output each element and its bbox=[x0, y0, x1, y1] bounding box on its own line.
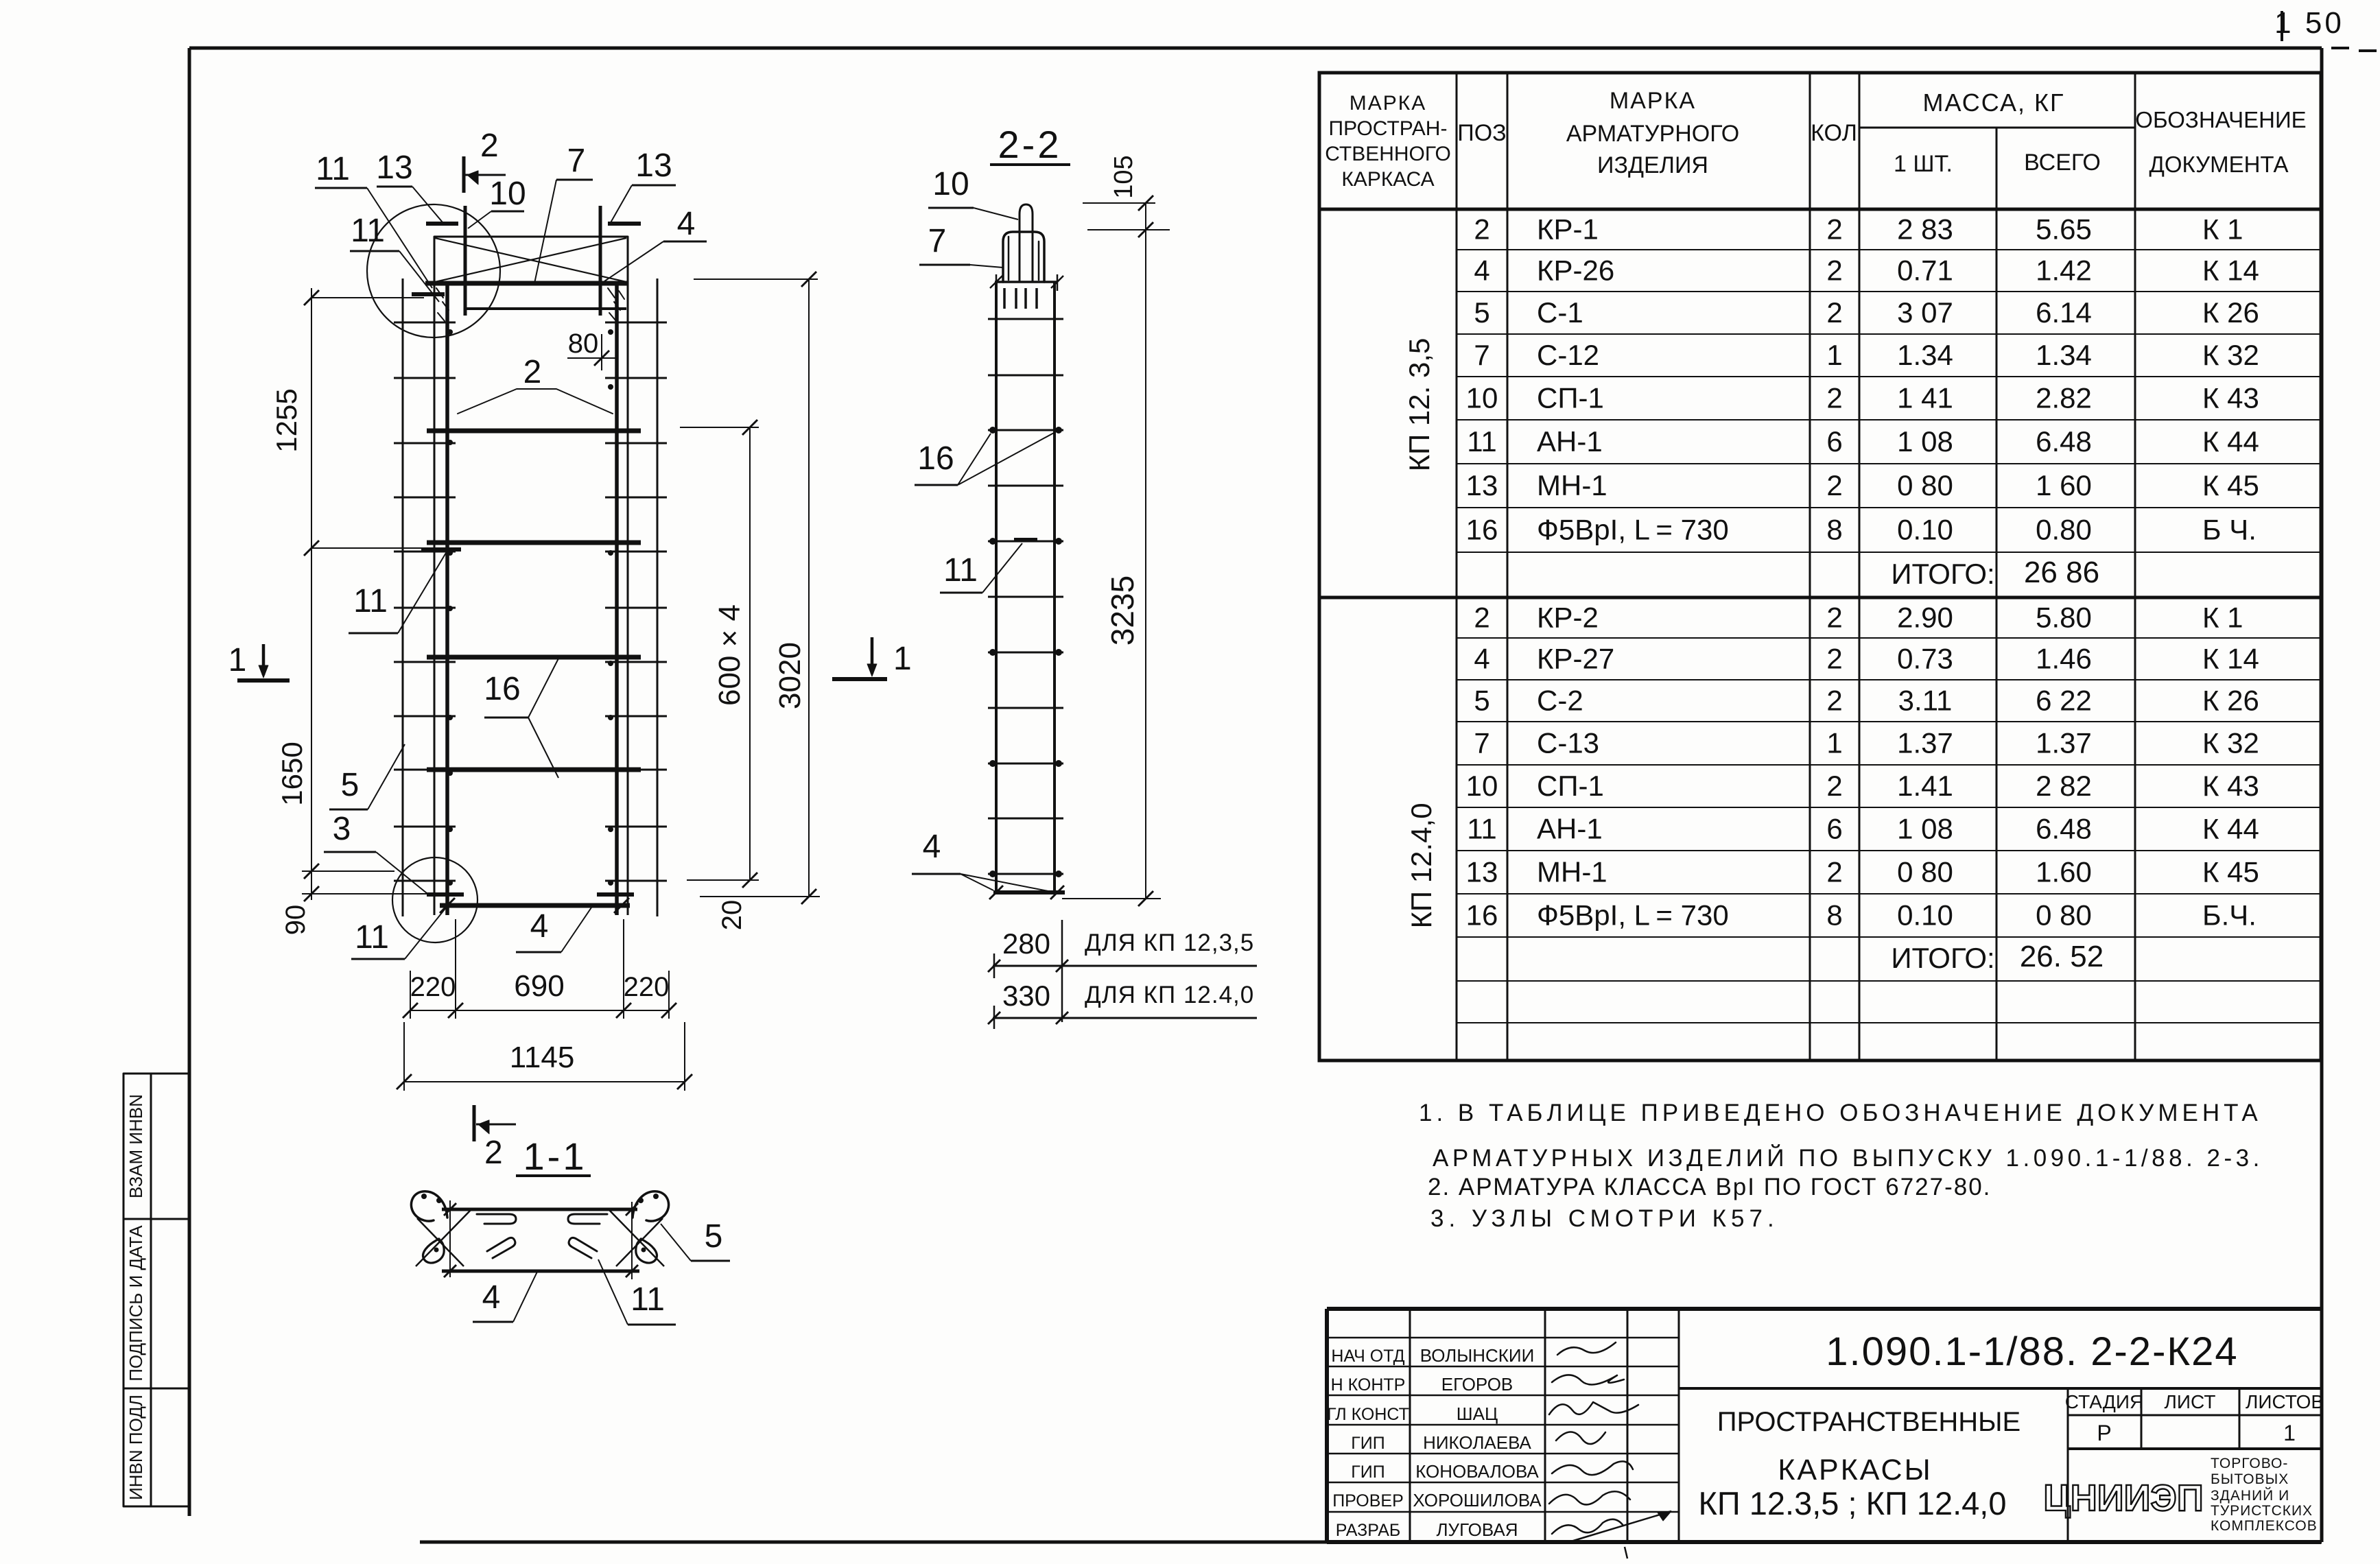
svg-text:5: 5 bbox=[1474, 685, 1489, 717]
bottom chord bar (pos 4) bbox=[440, 903, 630, 908]
dimension line 600x4 bbox=[749, 427, 751, 880]
svg-text:1: 1 bbox=[2283, 1421, 2296, 1445]
svg-text:ПРОСТРАНСТВЕННЫЕ: ПРОСТРАНСТВЕННЫЕ bbox=[1717, 1407, 2020, 1437]
svg-text:ГЛ КОНСТ: ГЛ КОНСТ bbox=[1327, 1405, 1409, 1424]
1-1 inner hook upper-left (pos 11) bbox=[477, 1214, 516, 1224]
svg-text:НАЧ ОТД: НАЧ ОТД bbox=[1331, 1347, 1404, 1366]
svg-text:ИЗДЕЛИЯ: ИЗДЕЛИЯ bbox=[1597, 152, 1708, 178]
mesh wire left at y1044 bbox=[394, 715, 456, 718]
svg-text:КР-2: КР-2 bbox=[1537, 602, 1599, 634]
svg-text:20: 20 bbox=[717, 900, 747, 931]
weld dots 2-2 (pos 16) bbox=[989, 427, 996, 434]
svg-text:К 26: К 26 bbox=[2202, 296, 2259, 329]
svg-text:ВОЛЫНСКИИ: ВОЛЫНСКИИ bbox=[1420, 1345, 1535, 1366]
svg-text:10: 10 bbox=[932, 166, 969, 202]
svg-text:1.34: 1.34 bbox=[2036, 339, 2092, 371]
svg-text:ПРОСТРАН-: ПРОСТРАН- bbox=[1329, 117, 1448, 140]
svg-text:2 82: 2 82 bbox=[2036, 770, 2092, 802]
svg-text:2: 2 bbox=[1826, 685, 1842, 717]
svg-text:16: 16 bbox=[484, 671, 520, 707]
svg-text:ПРОВЕР: ПРОВЕР bbox=[1332, 1491, 1404, 1510]
svg-text:13: 13 bbox=[1466, 856, 1498, 888]
svg-text:13: 13 bbox=[1466, 469, 1498, 501]
svg-text:90: 90 bbox=[281, 905, 311, 936]
svg-text:2: 2 bbox=[1826, 770, 1842, 802]
svg-text:2. АРМАТУРА КЛАССА ВрI ПО: 2. АРМАТУРА КЛАССА ВрI ПО ГОСТ 6727-80. bbox=[1428, 1174, 1991, 1200]
mesh wire left at y551 bbox=[394, 377, 456, 379]
svg-text:6.14: 6.14 bbox=[2036, 296, 2092, 329]
title block stray arrow bbox=[1571, 1511, 1671, 1541]
svg-text:К 14: К 14 bbox=[2202, 643, 2259, 675]
svg-text:Б.Ч.: Б.Ч. bbox=[2202, 899, 2257, 932]
mesh wire left at y646 bbox=[394, 442, 456, 445]
svg-text:11: 11 bbox=[631, 1281, 665, 1318]
svg-text:СП-1: СП-1 bbox=[1537, 382, 1604, 414]
svg-text:8: 8 bbox=[1826, 899, 1842, 932]
svg-text:4: 4 bbox=[923, 829, 941, 865]
svg-text:ГИП: ГИП bbox=[1351, 1462, 1385, 1482]
title block doc number divider bbox=[1679, 1387, 2321, 1390]
main view left chord bar inner bbox=[445, 283, 449, 915]
title block signatures scribbles bbox=[1557, 1342, 1616, 1355]
svg-text:КП 12.4,0: КП 12.4,0 bbox=[1405, 803, 1437, 928]
svg-text:АН-1: АН-1 bbox=[1537, 813, 1603, 845]
svg-text:1-1: 1-1 bbox=[523, 1135, 587, 1178]
weld hatch under head bbox=[1003, 288, 1006, 309]
welded cross bar at y628 bbox=[427, 429, 641, 434]
svg-text:К 1: К 1 bbox=[2202, 213, 2243, 246]
svg-text:2.90: 2.90 bbox=[1897, 602, 1953, 634]
svg-text:3 07: 3 07 bbox=[1897, 296, 1953, 329]
main view left mesh rail bbox=[402, 279, 404, 916]
main view right chord bar inner bbox=[615, 283, 619, 915]
svg-text:1 60: 1 60 bbox=[2036, 469, 2092, 501]
svg-text:0 80: 0 80 bbox=[2036, 899, 2092, 932]
svg-text:2: 2 bbox=[484, 1135, 503, 1171]
mesh wire left at y1284 bbox=[394, 880, 456, 882]
tick AN-1 bottom-left (pos 11) bbox=[427, 892, 464, 897]
svg-text:КОНОВАЛОВА: КОНОВАЛОВА bbox=[1415, 1461, 1539, 1482]
svg-text:СТАДИЯ: СТАДИЯ bbox=[2065, 1391, 2143, 1412]
svg-text:4: 4 bbox=[530, 908, 549, 945]
svg-text:26. 52: 26. 52 bbox=[2020, 940, 2104, 973]
svg-text:13: 13 bbox=[635, 147, 672, 184]
svg-text:С-12: С-12 bbox=[1537, 339, 1599, 371]
weld hatch top-right joint bbox=[608, 288, 624, 321]
column left bar 2-2 bbox=[995, 282, 998, 892]
svg-text:ВЗАМ ИНВN: ВЗАМ ИНВN bbox=[126, 1094, 146, 1198]
svg-text:СТВЕННОГО: СТВЕННОГО bbox=[1325, 143, 1451, 165]
svg-text:КАРКАСА: КАРКАСА bbox=[1341, 168, 1434, 191]
svg-text:3.11: 3.11 bbox=[1898, 685, 1953, 717]
mesh wire left at y1205 bbox=[394, 826, 456, 828]
mesh wire right at y804 bbox=[605, 551, 667, 553]
svg-text:10: 10 bbox=[1466, 770, 1498, 802]
top panel rectangle KR bbox=[434, 236, 628, 238]
svg-text:ДЛЯ КП 12.4,0: ДЛЯ КП 12.4,0 bbox=[1085, 982, 1254, 1008]
svg-text:6.48: 6.48 bbox=[2036, 425, 2092, 458]
svg-text:ИТОГО:: ИТОГО: bbox=[1891, 942, 1994, 974]
svg-text:АРМАТУРНОГО: АРМАТУРНОГО bbox=[1566, 121, 1739, 147]
mesh wire right at y1122 bbox=[605, 769, 667, 771]
svg-text:МАРКА: МАРКА bbox=[1350, 92, 1427, 115]
1-1 inner hook lower-left bbox=[487, 1237, 515, 1258]
svg-text:ЛИСТОВ: ЛИСТОВ bbox=[2246, 1391, 2324, 1412]
main view right mesh rail bbox=[657, 279, 659, 916]
svg-text:0.73: 0.73 bbox=[1897, 643, 1953, 675]
svg-text:К 32: К 32 bbox=[2202, 339, 2259, 371]
svg-text:ДОКУМЕНТА: ДОКУМЕНТА bbox=[2149, 152, 2289, 177]
stamp box PODPIS I DATA bbox=[123, 1219, 189, 1388]
svg-text:ХОРОШИЛОВА: ХОРОШИЛОВА bbox=[1413, 1490, 1542, 1510]
tick MN-1 right (pos 13) bbox=[608, 222, 641, 226]
svg-text:1 41: 1 41 bbox=[1897, 382, 1953, 414]
1-1 bottom bar (pos 4) bbox=[442, 1270, 639, 1273]
variant table line 280 bbox=[993, 965, 1257, 967]
parts table massa header divider bbox=[1859, 127, 2135, 129]
svg-text:8: 8 bbox=[1826, 514, 1842, 546]
tick AN-1 mid-left (pos 11) bbox=[421, 547, 461, 552]
svg-text:3235: 3235 bbox=[1105, 576, 1140, 645]
svg-text:2: 2 bbox=[1826, 469, 1842, 501]
welded cross bar at y958 bbox=[427, 655, 641, 660]
svg-text:0.80: 0.80 bbox=[2036, 514, 2092, 546]
mesh wire left at y886 bbox=[394, 607, 456, 609]
svg-text:26 86: 26 86 bbox=[2024, 556, 2099, 589]
svg-text:2: 2 bbox=[1826, 296, 1842, 329]
node detail circle bottom-left bbox=[392, 857, 478, 943]
svg-text:1.46: 1.46 bbox=[2036, 643, 2092, 675]
svg-text:0.10: 0.10 bbox=[1897, 899, 1953, 932]
svg-text:2: 2 bbox=[1474, 602, 1489, 634]
svg-text:11: 11 bbox=[351, 213, 385, 249]
1-1 left end hook (pos 5) bbox=[411, 1192, 447, 1221]
column right bar 2-2 bbox=[1053, 282, 1056, 892]
mesh wire right at y551 bbox=[605, 377, 667, 379]
svg-text:4: 4 bbox=[1474, 254, 1489, 287]
svg-text:2-2: 2-2 bbox=[998, 123, 1062, 166]
svg-text:К 45: К 45 bbox=[2202, 856, 2259, 888]
svg-text:К 14: К 14 bbox=[2202, 254, 2259, 287]
svg-text:1 ШТ.: 1 ШТ. bbox=[1894, 151, 1953, 177]
dimension line 220-690-220 bbox=[410, 1010, 669, 1011]
svg-text:2.82: 2.82 bbox=[2036, 382, 2092, 414]
svg-text:ПОЗ: ПОЗ bbox=[1457, 120, 1506, 146]
svg-text:БЫТОВЫХ: БЫТОВЫХ bbox=[2211, 1471, 2289, 1487]
second horizontal bar of head bbox=[465, 307, 626, 310]
tick AN-1 top-left (pos 11) bbox=[412, 292, 445, 296]
stamp box INV N PODL bbox=[123, 1388, 189, 1506]
svg-text:С-2: С-2 bbox=[1537, 685, 1583, 717]
svg-text:2: 2 bbox=[1826, 254, 1842, 287]
1-1 tick line left bbox=[449, 1200, 451, 1277]
svg-text:10: 10 bbox=[489, 176, 526, 212]
svg-text:1.41: 1.41 bbox=[1897, 770, 1953, 802]
svg-text:ЛУГОВАЯ: ЛУГОВАЯ bbox=[1436, 1519, 1518, 1540]
section mark 2 bottom bbox=[473, 1105, 476, 1141]
svg-text:4: 4 bbox=[1474, 643, 1489, 675]
svg-text:ПОДПИСЬ И ДАТА: ПОДПИСЬ И ДАТА bbox=[126, 1225, 146, 1382]
svg-text:1.090.1-1/88. 2-2-К24: 1.090.1-1/88. 2-2-К24 bbox=[1826, 1329, 2238, 1374]
mesh wire left at y470 bbox=[394, 322, 456, 324]
svg-text:МАРКА: МАРКА bbox=[1610, 88, 1696, 114]
svg-text:ЕГОРОВ: ЕГОРОВ bbox=[1441, 1374, 1513, 1395]
svg-text:ГИП: ГИП bbox=[1351, 1434, 1385, 1453]
svg-text:3020: 3020 bbox=[773, 642, 807, 709]
svg-text:16: 16 bbox=[1466, 514, 1498, 546]
head channel (pos 7) bbox=[1003, 232, 1044, 282]
svg-text:ВСЕГО: ВСЕГО bbox=[2024, 150, 2101, 176]
svg-text:1.42: 1.42 bbox=[2036, 254, 2092, 287]
svg-text:К 26: К 26 bbox=[2202, 685, 2259, 717]
svg-text:К 43: К 43 bbox=[2202, 382, 2259, 414]
tick MN-1 left (pos 13) bbox=[426, 222, 458, 226]
svg-text:11: 11 bbox=[355, 919, 389, 956]
svg-text:КР-27: КР-27 bbox=[1537, 643, 1614, 675]
mesh wire right at y646 bbox=[605, 442, 667, 445]
svg-text:0 80: 0 80 bbox=[1897, 469, 1953, 501]
svg-text:К 45: К 45 bbox=[2202, 469, 2259, 501]
svg-text:11: 11 bbox=[1467, 425, 1497, 458]
svg-text:6.48: 6.48 bbox=[2036, 813, 2092, 845]
1-1 tick line right bbox=[631, 1202, 633, 1279]
svg-text:1145: 1145 bbox=[510, 1041, 575, 1074]
svg-text:НИКОЛАЕВА: НИКОЛАЕВА bbox=[1423, 1432, 1531, 1453]
dimension line 1145 bbox=[404, 1081, 685, 1082]
parts table header bottom line bbox=[1319, 208, 2321, 211]
svg-text:ЛИСТ: ЛИСТ bbox=[2165, 1391, 2216, 1412]
svg-text:1: 1 bbox=[893, 641, 912, 677]
svg-text:КР-26: КР-26 bbox=[1537, 254, 1614, 287]
svg-text:11: 11 bbox=[353, 583, 388, 619]
1-1 right X brace bbox=[616, 1218, 663, 1266]
svg-text:С-13: С-13 bbox=[1537, 727, 1599, 759]
svg-text:1 08: 1 08 bbox=[1897, 425, 1953, 458]
svg-text:10: 10 bbox=[1466, 382, 1498, 414]
svg-text:АРМАТУРНЫХ ИЗДЕЛИЙ ПО ВЫ: АРМАТУРНЫХ ИЗДЕЛИЙ ПО ВЫПУСКУ 1.090.1-1/… bbox=[1433, 1144, 2263, 1172]
svg-text:Ф5ВрI, L = 730: Ф5ВрI, L = 730 bbox=[1537, 514, 1729, 546]
svg-text:2: 2 bbox=[1826, 856, 1842, 888]
svg-text:МН-1: МН-1 bbox=[1537, 856, 1607, 888]
svg-text:3. УЗЛЫ СМОТРИ К57.: 3. УЗЛЫ СМОТРИ К57. bbox=[1430, 1205, 1779, 1232]
welded cross bar at y1122 bbox=[427, 768, 641, 772]
svg-text:К 32: К 32 bbox=[2202, 727, 2259, 759]
top bar position 10 right bbox=[599, 206, 602, 316]
dowel bar top (pos 10) bbox=[1020, 204, 1033, 281]
tick AN-1 bottom-right bbox=[597, 892, 634, 897]
svg-text:330: 330 bbox=[1002, 980, 1050, 1012]
parts table column lines bbox=[1456, 73, 1458, 1061]
svg-text:5: 5 bbox=[705, 1218, 723, 1255]
svg-text:2: 2 bbox=[1474, 213, 1489, 246]
svg-text:Б Ч.: Б Ч. bbox=[2202, 514, 2257, 546]
svg-text:1.37: 1.37 bbox=[1897, 727, 1953, 759]
section mark 1 left bbox=[237, 678, 290, 683]
svg-text:80: 80 bbox=[568, 329, 599, 359]
svg-text:К 43: К 43 bbox=[2202, 770, 2259, 802]
svg-text:2: 2 bbox=[480, 128, 499, 164]
variant table line 330 bbox=[993, 1017, 1257, 1019]
svg-text:600 × 4: 600 × 4 bbox=[713, 604, 746, 706]
mesh wire left at y1122 bbox=[394, 769, 456, 771]
svg-text:ТОРГОВО-: ТОРГОВО- bbox=[2211, 1456, 2288, 1471]
stamp box VZAM INV N bbox=[123, 1074, 189, 1219]
neck weld line bbox=[995, 281, 1058, 283]
node detail circle top-left bbox=[367, 204, 500, 337]
svg-text:С-1: С-1 bbox=[1537, 296, 1583, 329]
mesh wire left at y725 bbox=[394, 497, 456, 499]
svg-text:690: 690 bbox=[514, 969, 564, 1003]
svg-text:1: 1 bbox=[1826, 727, 1842, 759]
svg-text:7: 7 bbox=[567, 143, 586, 179]
svg-text:220: 220 bbox=[410, 972, 456, 1002]
1-1 left X brace bbox=[417, 1218, 464, 1266]
title block row lines bbox=[1327, 1337, 1679, 1339]
svg-text:105: 105 bbox=[1109, 155, 1138, 198]
svg-text:0.71: 0.71 bbox=[1897, 254, 1953, 287]
top panel thick bottom bar bbox=[425, 281, 628, 286]
svg-text:1: 1 bbox=[1826, 339, 1842, 371]
main view left chord bar outer bbox=[434, 237, 436, 915]
svg-text:К 44: К 44 bbox=[2202, 425, 2259, 458]
weld dots on chords bbox=[447, 329, 453, 335]
svg-text:11: 11 bbox=[316, 151, 350, 187]
svg-text:2: 2 bbox=[1826, 213, 1842, 246]
1-1 right end hook (pos 5) bbox=[633, 1192, 669, 1221]
dimension line left stack bbox=[311, 288, 312, 900]
svg-text:3: 3 bbox=[333, 811, 351, 847]
svg-text:0 80: 0 80 bbox=[1897, 856, 1953, 888]
svg-text:ШАЦ: ШАЦ bbox=[1457, 1403, 1498, 1424]
svg-text:АН-1: АН-1 bbox=[1537, 425, 1603, 458]
svg-text:РАЗРАБ: РАЗРАБ bbox=[1336, 1521, 1401, 1540]
parts table row lines bbox=[1457, 249, 2321, 250]
parts table section divider thick bbox=[1319, 596, 2321, 600]
svg-text:1.37: 1.37 bbox=[2036, 727, 2092, 759]
svg-text:КП 12.3,5 ; КП 12.4,0: КП 12.3,5 ; КП 12.4,0 bbox=[1699, 1485, 2007, 1521]
svg-text:280: 280 bbox=[1002, 927, 1050, 960]
svg-text:6: 6 bbox=[1826, 425, 1842, 458]
mesh wire right at y1284 bbox=[605, 880, 667, 882]
svg-text:КР-1: КР-1 bbox=[1537, 213, 1599, 246]
svg-text:2: 2 bbox=[1826, 602, 1842, 634]
svg-text:ТУРИСТСКИХ: ТУРИСТСКИХ bbox=[2211, 1503, 2313, 1519]
top panel X brace bbox=[435, 238, 626, 282]
1-1 right bottom loop bbox=[636, 1239, 657, 1263]
svg-text:2: 2 bbox=[1826, 643, 1842, 675]
svg-text:Н КОНТР: Н КОНТР bbox=[1331, 1375, 1406, 1395]
mesh wire right at y1044 bbox=[605, 715, 667, 718]
svg-text:16: 16 bbox=[917, 440, 954, 477]
svg-text:5.80: 5.80 bbox=[2036, 602, 2092, 634]
svg-text:1 08: 1 08 bbox=[1897, 813, 1953, 845]
svg-text:6: 6 bbox=[1826, 813, 1842, 845]
svg-text:ИТОГО:: ИТОГО: bbox=[1891, 558, 1994, 590]
svg-text:КОЛ: КОЛ bbox=[1811, 120, 1857, 146]
svg-text:11: 11 bbox=[1467, 813, 1497, 845]
svg-text:ОБОЗНАЧЕНИЕ: ОБОЗНАЧЕНИЕ bbox=[2135, 107, 2306, 132]
svg-text:2: 2 bbox=[523, 354, 542, 390]
svg-text:МАССА, КГ: МАССА, КГ bbox=[1923, 88, 2065, 117]
section mark 2 top bbox=[462, 156, 466, 193]
main view right chord bar outer bbox=[627, 237, 629, 915]
svg-text:4: 4 bbox=[482, 1279, 501, 1316]
title block vertical lines left part bbox=[1409, 1309, 1411, 1542]
svg-text:КОМПЛЕКСОВ: КОМПЛЕКСОВ bbox=[2211, 1518, 2318, 1534]
svg-text:ДЛЯ КП 12,3,5: ДЛЯ КП 12,3,5 bbox=[1085, 929, 1254, 956]
svg-text:1.60: 1.60 bbox=[2036, 856, 2092, 888]
dimension line 3235/105 bbox=[1145, 203, 1146, 899]
svg-text:6 22: 6 22 bbox=[2036, 685, 2092, 717]
1-1 inner hook upper-right (pos 11) bbox=[568, 1214, 607, 1224]
svg-text:1255: 1255 bbox=[270, 388, 303, 452]
title block outer frame bbox=[1327, 1309, 2321, 1542]
mesh wire right at y965 bbox=[605, 661, 667, 663]
svg-text:5: 5 bbox=[1474, 296, 1489, 329]
page border frame bbox=[189, 47, 2322, 50]
svg-text:1.34: 1.34 bbox=[1897, 339, 1953, 371]
rungs of 2-2 column bbox=[988, 318, 1063, 320]
parts table outer frame bbox=[1319, 73, 2321, 1061]
svg-text:Ф5ВрI, L = 730: Ф5ВрI, L = 730 bbox=[1537, 899, 1729, 932]
dimension line 3020 bbox=[808, 279, 810, 897]
svg-text:0.10: 0.10 bbox=[1897, 514, 1953, 546]
svg-text:КАРКАСЫ: КАРКАСЫ bbox=[1778, 1454, 1932, 1486]
svg-text:1. В ТАБЛИЦЕ ПРИВЕДЕНО ОБ: 1. В ТАБЛИЦЕ ПРИВЕДЕНО ОБОЗНАЧЕНИЕ ДОКУМ… bbox=[1419, 1100, 2262, 1126]
svg-text:1650: 1650 bbox=[276, 742, 308, 805]
svg-text:7: 7 bbox=[1474, 339, 1489, 371]
mesh wire right at y725 bbox=[605, 497, 667, 499]
section mark 1 right bbox=[832, 677, 887, 681]
mesh wire left at y804 bbox=[394, 551, 456, 553]
mesh wire right at y886 bbox=[605, 607, 667, 609]
svg-text:7: 7 bbox=[928, 223, 947, 259]
svg-text:16: 16 bbox=[1466, 899, 1498, 932]
svg-text:К 44: К 44 bbox=[2202, 813, 2259, 845]
svg-text:1 50: 1 50 bbox=[2274, 6, 2344, 40]
svg-text:ЦНИИЭП: ЦНИИЭП bbox=[2043, 1478, 2203, 1519]
svg-text:СП-1: СП-1 bbox=[1537, 770, 1604, 802]
svg-text:КП 12. 3,5: КП 12. 3,5 bbox=[1403, 338, 1435, 472]
svg-text:5: 5 bbox=[341, 767, 360, 803]
svg-text:Р: Р bbox=[2097, 1421, 2111, 1445]
svg-text:2: 2 bbox=[1826, 382, 1842, 414]
title block stage grid bbox=[2067, 1388, 2069, 1542]
anchor end dash (pos 11) in 2-2 bbox=[1014, 538, 1037, 541]
svg-text:11: 11 bbox=[943, 552, 978, 589]
1-1 left bottom loop bbox=[423, 1239, 445, 1263]
dimension 80 near top right bbox=[601, 334, 602, 370]
svg-text:7: 7 bbox=[1474, 727, 1489, 759]
svg-text:2 83: 2 83 bbox=[1897, 213, 1953, 246]
svg-text:13: 13 bbox=[376, 150, 412, 186]
welded cross bar at y791 bbox=[427, 541, 641, 545]
mesh wire left at y965 bbox=[394, 661, 456, 663]
svg-text:ЗДАНИЙ И: ЗДАНИЙ И bbox=[2211, 1487, 2289, 1504]
mesh wire right at y1205 bbox=[605, 826, 667, 828]
svg-text:220: 220 bbox=[624, 972, 670, 1002]
bottom plate 2-2 (pos 4) bbox=[993, 890, 1065, 894]
weld hatch top-left joint bbox=[436, 288, 449, 321]
mesh wire right at y470 bbox=[605, 322, 667, 324]
1-1 top bar (pos 4) bbox=[442, 1208, 637, 1211]
top bar position 10 left bbox=[464, 206, 467, 316]
svg-text:МН-1: МН-1 bbox=[1537, 469, 1607, 501]
svg-text:4: 4 bbox=[677, 206, 696, 242]
svg-text:ИНВN ПОДЛ: ИНВN ПОДЛ bbox=[126, 1395, 146, 1500]
svg-text:1: 1 bbox=[228, 642, 247, 678]
svg-text:К 1: К 1 bbox=[2202, 602, 2243, 634]
